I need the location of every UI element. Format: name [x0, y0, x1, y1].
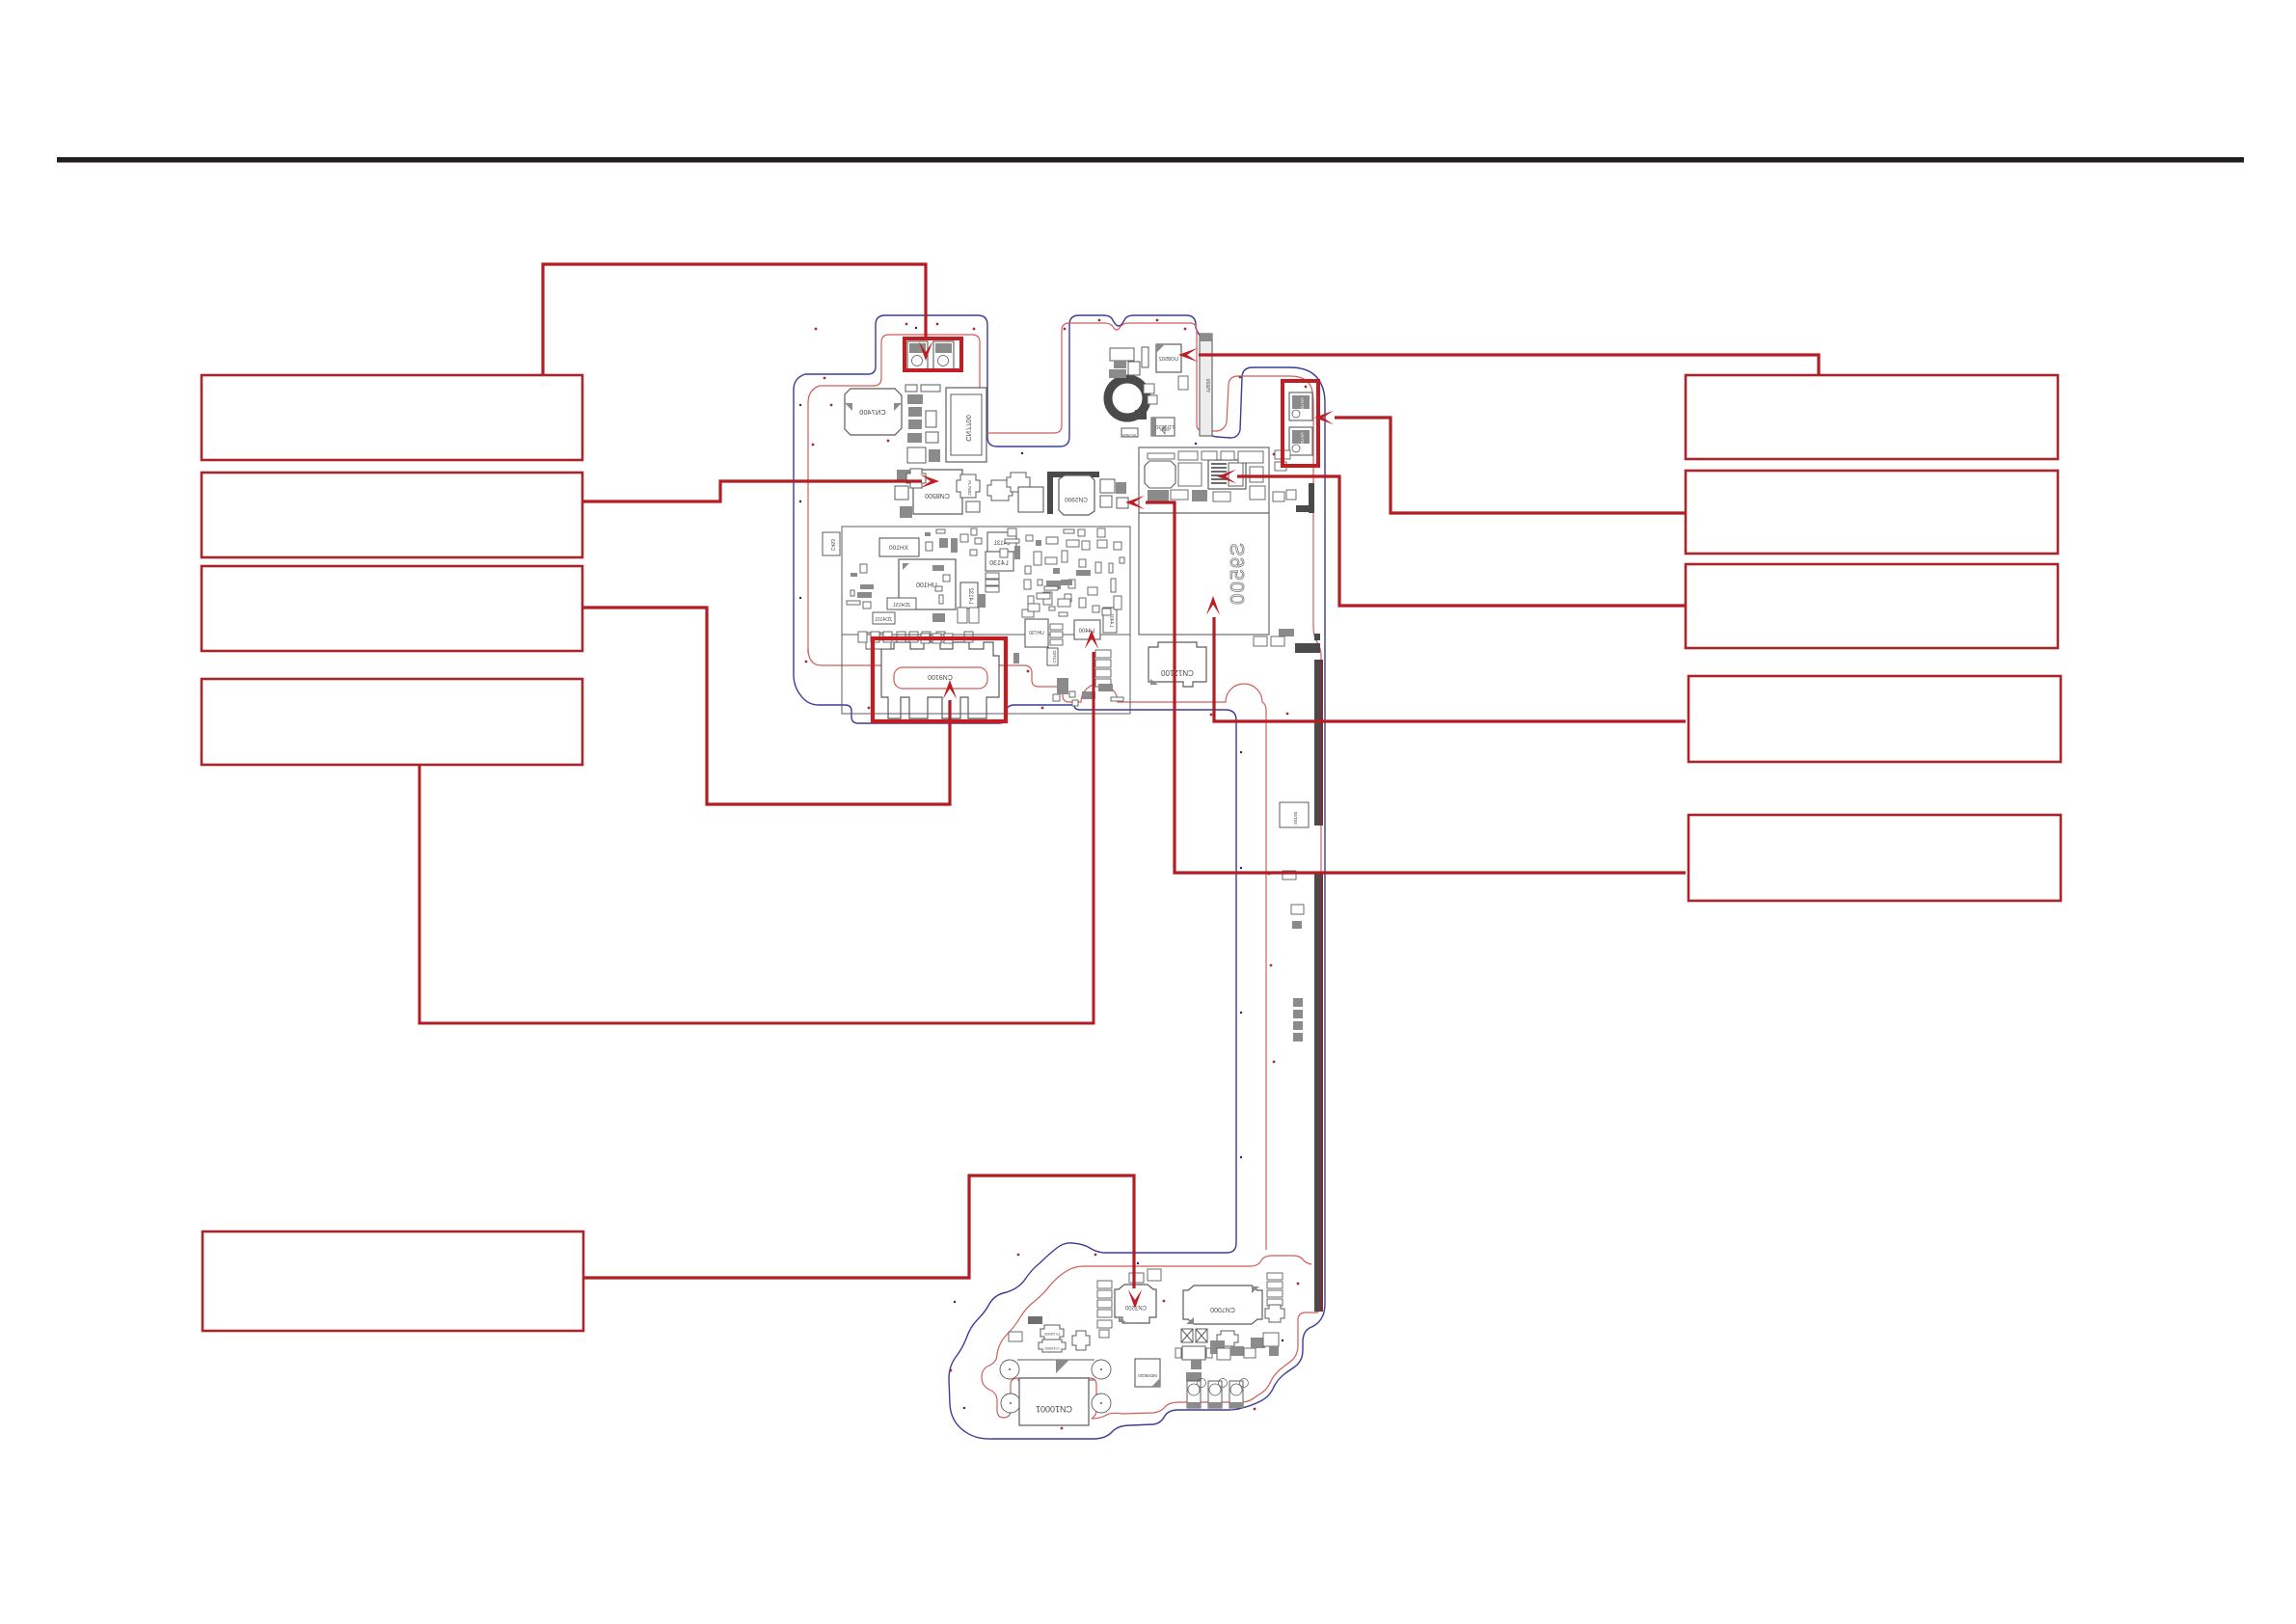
- leader from box R2 to UN7502 highlight: [1335, 418, 1686, 513]
- ZD4151: [887, 598, 916, 609]
- shield bar near CN2900: [1047, 472, 1099, 477]
- UCD01: [1145, 461, 1175, 488]
- UH100: [899, 559, 956, 609]
- filter FL7903: [987, 480, 1013, 501]
- PU7 group: [1182, 1346, 1205, 1360]
- connector CN10001: [1019, 1378, 1089, 1425]
- svg-text:CN7400: CN7400: [859, 408, 886, 417]
- svg-text:CN8500: CN8500: [925, 492, 950, 499]
- small parts column between CN7400 and CN7700: [905, 385, 917, 392]
- parts right of CN2900: [1100, 479, 1115, 493]
- dark bar near CN12100: [1295, 643, 1320, 653]
- svg-text:FL7502: FL7502: [967, 480, 972, 496]
- MD89020: [1135, 1359, 1160, 1387]
- X components: [1181, 1329, 1193, 1342]
- svg-text:ZD4151: ZD4151: [893, 603, 910, 609]
- red outline: bottom edge of main board with notches + neck left: [808, 648, 1266, 1250]
- UQ2101: [1208, 460, 1246, 489]
- board-edge stiffener upper segment: [1314, 660, 1320, 826]
- UCD01 band frame: [1139, 447, 1269, 513]
- VA760A: [1121, 428, 1138, 437]
- svg-text:XH100: XH100: [889, 545, 908, 552]
- misc gray bits lower right: [1210, 1340, 1225, 1354]
- C447/C448 pair: [958, 608, 967, 623]
- svg-text:VA760A: VA760A: [1121, 433, 1136, 438]
- dark chip top-left of lower board: [1028, 1316, 1042, 1324]
- callout box R4: [1688, 676, 2061, 762]
- buzzer/mic trio: [1187, 1381, 1201, 1408]
- FL7003: [1072, 1331, 1090, 1350]
- svg-text:CN7700: CN7700: [964, 415, 973, 442]
- resistor stack right of UH730: [1050, 624, 1063, 630]
- svg-text:FL10000: FL10000: [1043, 1332, 1060, 1337]
- board-edge stiffener top: [1314, 634, 1320, 640]
- highlight box - UN7502/UN7503: [1283, 381, 1318, 466]
- UO8502: [1156, 344, 1181, 372]
- shield bar right of S9500: [1309, 483, 1314, 513]
- svg-text:UH100: UH100: [916, 582, 937, 589]
- connector CN7700: [946, 388, 986, 462]
- LD9830: [1151, 418, 1175, 436]
- regulator UN8500: [1018, 487, 1043, 512]
- XH100: [879, 538, 919, 556]
- filter FL7501: [906, 469, 926, 488]
- callout box R3: [1686, 564, 2058, 648]
- svg-text:Y5600: Y5600: [1204, 379, 1210, 393]
- NA7000 stack: [1267, 1273, 1283, 1280]
- CH430 stack: [986, 573, 999, 579]
- bottom small squares row: [858, 632, 867, 642]
- PCB outline inner (red): [808, 323, 1321, 1419]
- speaker ring: [1108, 379, 1147, 418]
- FL7503: [1217, 1331, 1238, 1346]
- ZD4101: [873, 612, 895, 624]
- svg-text:CN7000: CN7000: [1210, 1306, 1235, 1313]
- svg-text:C4702: C4702: [1052, 650, 1057, 663]
- connector CN9100: [881, 642, 999, 718]
- callout box L4: [202, 679, 582, 765]
- shield frame S9500: [1139, 513, 1269, 635]
- svg-text:S5T03: S5T03: [1293, 811, 1298, 825]
- connector CN7400: [845, 389, 902, 435]
- callout box L3: [202, 566, 582, 651]
- CM901 + small caps row above CN9100: [866, 633, 891, 649]
- FL10000: [1040, 1325, 1064, 1340]
- svg-text:CN12100: CN12100: [1161, 668, 1194, 677]
- callout box L1: [202, 375, 582, 460]
- L4131: [987, 532, 1016, 552]
- parts right of S9500: [1275, 450, 1290, 459]
- filter PL7908: [1007, 473, 1030, 492]
- mount circles dumbbell: [1000, 1360, 1019, 1379]
- main PCB outline (blue): [794, 315, 1325, 1439]
- parts in neck: [1280, 802, 1309, 827]
- small parts above CN7200: [1129, 1273, 1144, 1283]
- callout box R2: [1686, 471, 2058, 554]
- svg-text:CN9100: CN9100: [928, 673, 953, 680]
- leader from box L2 to CN8500: [582, 481, 922, 501]
- svg-text:CN2900: CN2900: [1065, 496, 1088, 502]
- leader from box L5 to CN7200: [583, 1176, 1134, 1288]
- connector CN12100: [1148, 642, 1206, 687]
- leader from box R5 to UQ2002: [1146, 502, 1686, 873]
- callout box L2: [202, 473, 582, 557]
- svg-text:S9500: S9500: [1228, 543, 1249, 606]
- leader from box L1 to jack highlight: [543, 264, 926, 375]
- svg-text:UN7502: UN7502: [1300, 397, 1305, 413]
- small parts near ring right: [1144, 384, 1154, 393]
- leader from box L4 to L4400: [419, 652, 1094, 1023]
- L4401: [1103, 608, 1117, 633]
- highlight box - CN9100: [873, 638, 1006, 721]
- svg-text:UO8502: UO8502: [1159, 357, 1179, 363]
- leader from box R3 to UQ2101: [1237, 476, 1686, 606]
- L4132: [960, 582, 978, 609]
- CN8600 cluster: [1110, 348, 1134, 361]
- fiducial dots: [815, 328, 818, 331]
- UH730: [1025, 619, 1048, 647]
- svg-text:MD89020: MD89020: [1138, 1373, 1157, 1378]
- svg-text:C453: C453: [829, 539, 835, 551]
- board-edge stiffener long segment: [1314, 874, 1320, 1312]
- UCD band small parts: [1178, 451, 1198, 460]
- highlight box - earjack pair: [905, 338, 961, 370]
- leader from box R1 to UO8502: [1199, 355, 1819, 375]
- earjack component 1: [907, 341, 928, 369]
- connector CN7200: [1115, 1285, 1156, 1323]
- svg-text:L4130: L4130: [989, 560, 1009, 567]
- L4130: [986, 552, 1013, 571]
- column of caps left of CN12100: [1095, 650, 1111, 658]
- C4702: [1047, 648, 1058, 665]
- svg-text:UH730: UH730: [1029, 631, 1044, 636]
- crystal Y5600: [1200, 334, 1212, 436]
- C453: [823, 532, 840, 555]
- svg-text:UN7503: UN7503: [1300, 432, 1305, 447]
- earjack component 2: [933, 341, 954, 369]
- leader from box R4 to S9500: [1214, 617, 1686, 721]
- callout box R1: [1686, 375, 2058, 459]
- UN7502: [1289, 392, 1312, 420]
- filter FL7502: [957, 474, 980, 498]
- header rule: [57, 157, 2244, 163]
- component field frame: [842, 527, 1130, 714]
- L4400: [1074, 620, 1100, 639]
- leader from box L3 to CN9100: [582, 608, 950, 804]
- CI10000: [1039, 1340, 1066, 1352]
- filler passives field: [851, 573, 857, 577]
- callout box R5: [1688, 815, 2061, 901]
- connector CN2900: [1059, 475, 1094, 515]
- connector CN7000: [1183, 1286, 1262, 1324]
- UN7503: [1289, 427, 1312, 455]
- FL7001: [1265, 1305, 1284, 1322]
- svg-text:CN10001: CN10001: [1036, 1404, 1072, 1414]
- svg-text:L4132: L4132: [967, 587, 973, 604]
- svg-text:CI10000: CI10000: [1044, 1346, 1060, 1351]
- svg-text:ZD4101: ZD4101: [875, 617, 892, 623]
- NA750x column: [1097, 1281, 1112, 1288]
- callout box L5: [203, 1232, 583, 1331]
- connector CN8500: [913, 470, 962, 514]
